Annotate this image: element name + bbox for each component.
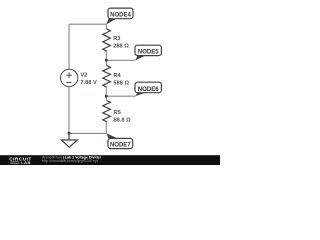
wire top horizontal xyxy=(69,23,106,25)
wire R4 bottom lead xyxy=(105,87,107,96)
wire R3 top lead xyxy=(105,24,107,29)
wire left rail upper xyxy=(68,24,70,69)
svg-text:NODE4: NODE4 xyxy=(110,12,131,18)
wire R3 bottom lead xyxy=(105,51,107,60)
wire R5 bottom lead xyxy=(105,122,107,134)
svg-text:88.8 Ω: 88.8 Ω xyxy=(114,118,132,124)
wire R4 top lead xyxy=(105,60,107,65)
resistor R3 xyxy=(103,29,111,51)
resistor R4 xyxy=(103,66,111,88)
node NODE6 xyxy=(135,82,161,96)
wire stub to NODE6 xyxy=(106,95,135,97)
svg-text:288 Ω: 288 Ω xyxy=(113,44,129,50)
wire stub to NODE5 xyxy=(106,59,135,61)
svg-text:NODE6: NODE6 xyxy=(138,87,159,93)
node NODE5 xyxy=(135,45,161,60)
footer bar xyxy=(0,155,220,165)
ground xyxy=(61,133,77,147)
voltage source V2 xyxy=(60,69,77,86)
resistor R5 xyxy=(103,101,111,122)
svg-text:V2: V2 xyxy=(80,73,87,79)
node junction dot C (R4-R5) xyxy=(105,95,108,98)
node junction dot A (ground) xyxy=(68,132,71,135)
svg-text:R3: R3 xyxy=(113,36,120,42)
svg-text:NODE5: NODE5 xyxy=(138,50,159,56)
node junction dot B (R3-R4) xyxy=(105,59,108,62)
svg-text:588 Ω: 588 Ω xyxy=(113,80,129,86)
svg-text:LAB: LAB xyxy=(21,160,31,165)
wire bottom horizontal xyxy=(69,132,106,134)
svg-text:7.88 V: 7.88 V xyxy=(80,80,97,86)
wire left rail lower xyxy=(68,87,70,134)
svg-text:R4: R4 xyxy=(113,73,121,79)
svg-text:R5: R5 xyxy=(114,110,121,116)
node NODE7 xyxy=(106,133,132,148)
node NODE4 xyxy=(106,8,133,24)
svg-text:NODE7: NODE7 xyxy=(110,142,131,148)
wire R5 top lead xyxy=(105,96,107,100)
svg-text:http://circuitlab.com/c/ljrgn2: http://circuitlab.com/c/ljrgn2337nyt xyxy=(42,159,98,163)
